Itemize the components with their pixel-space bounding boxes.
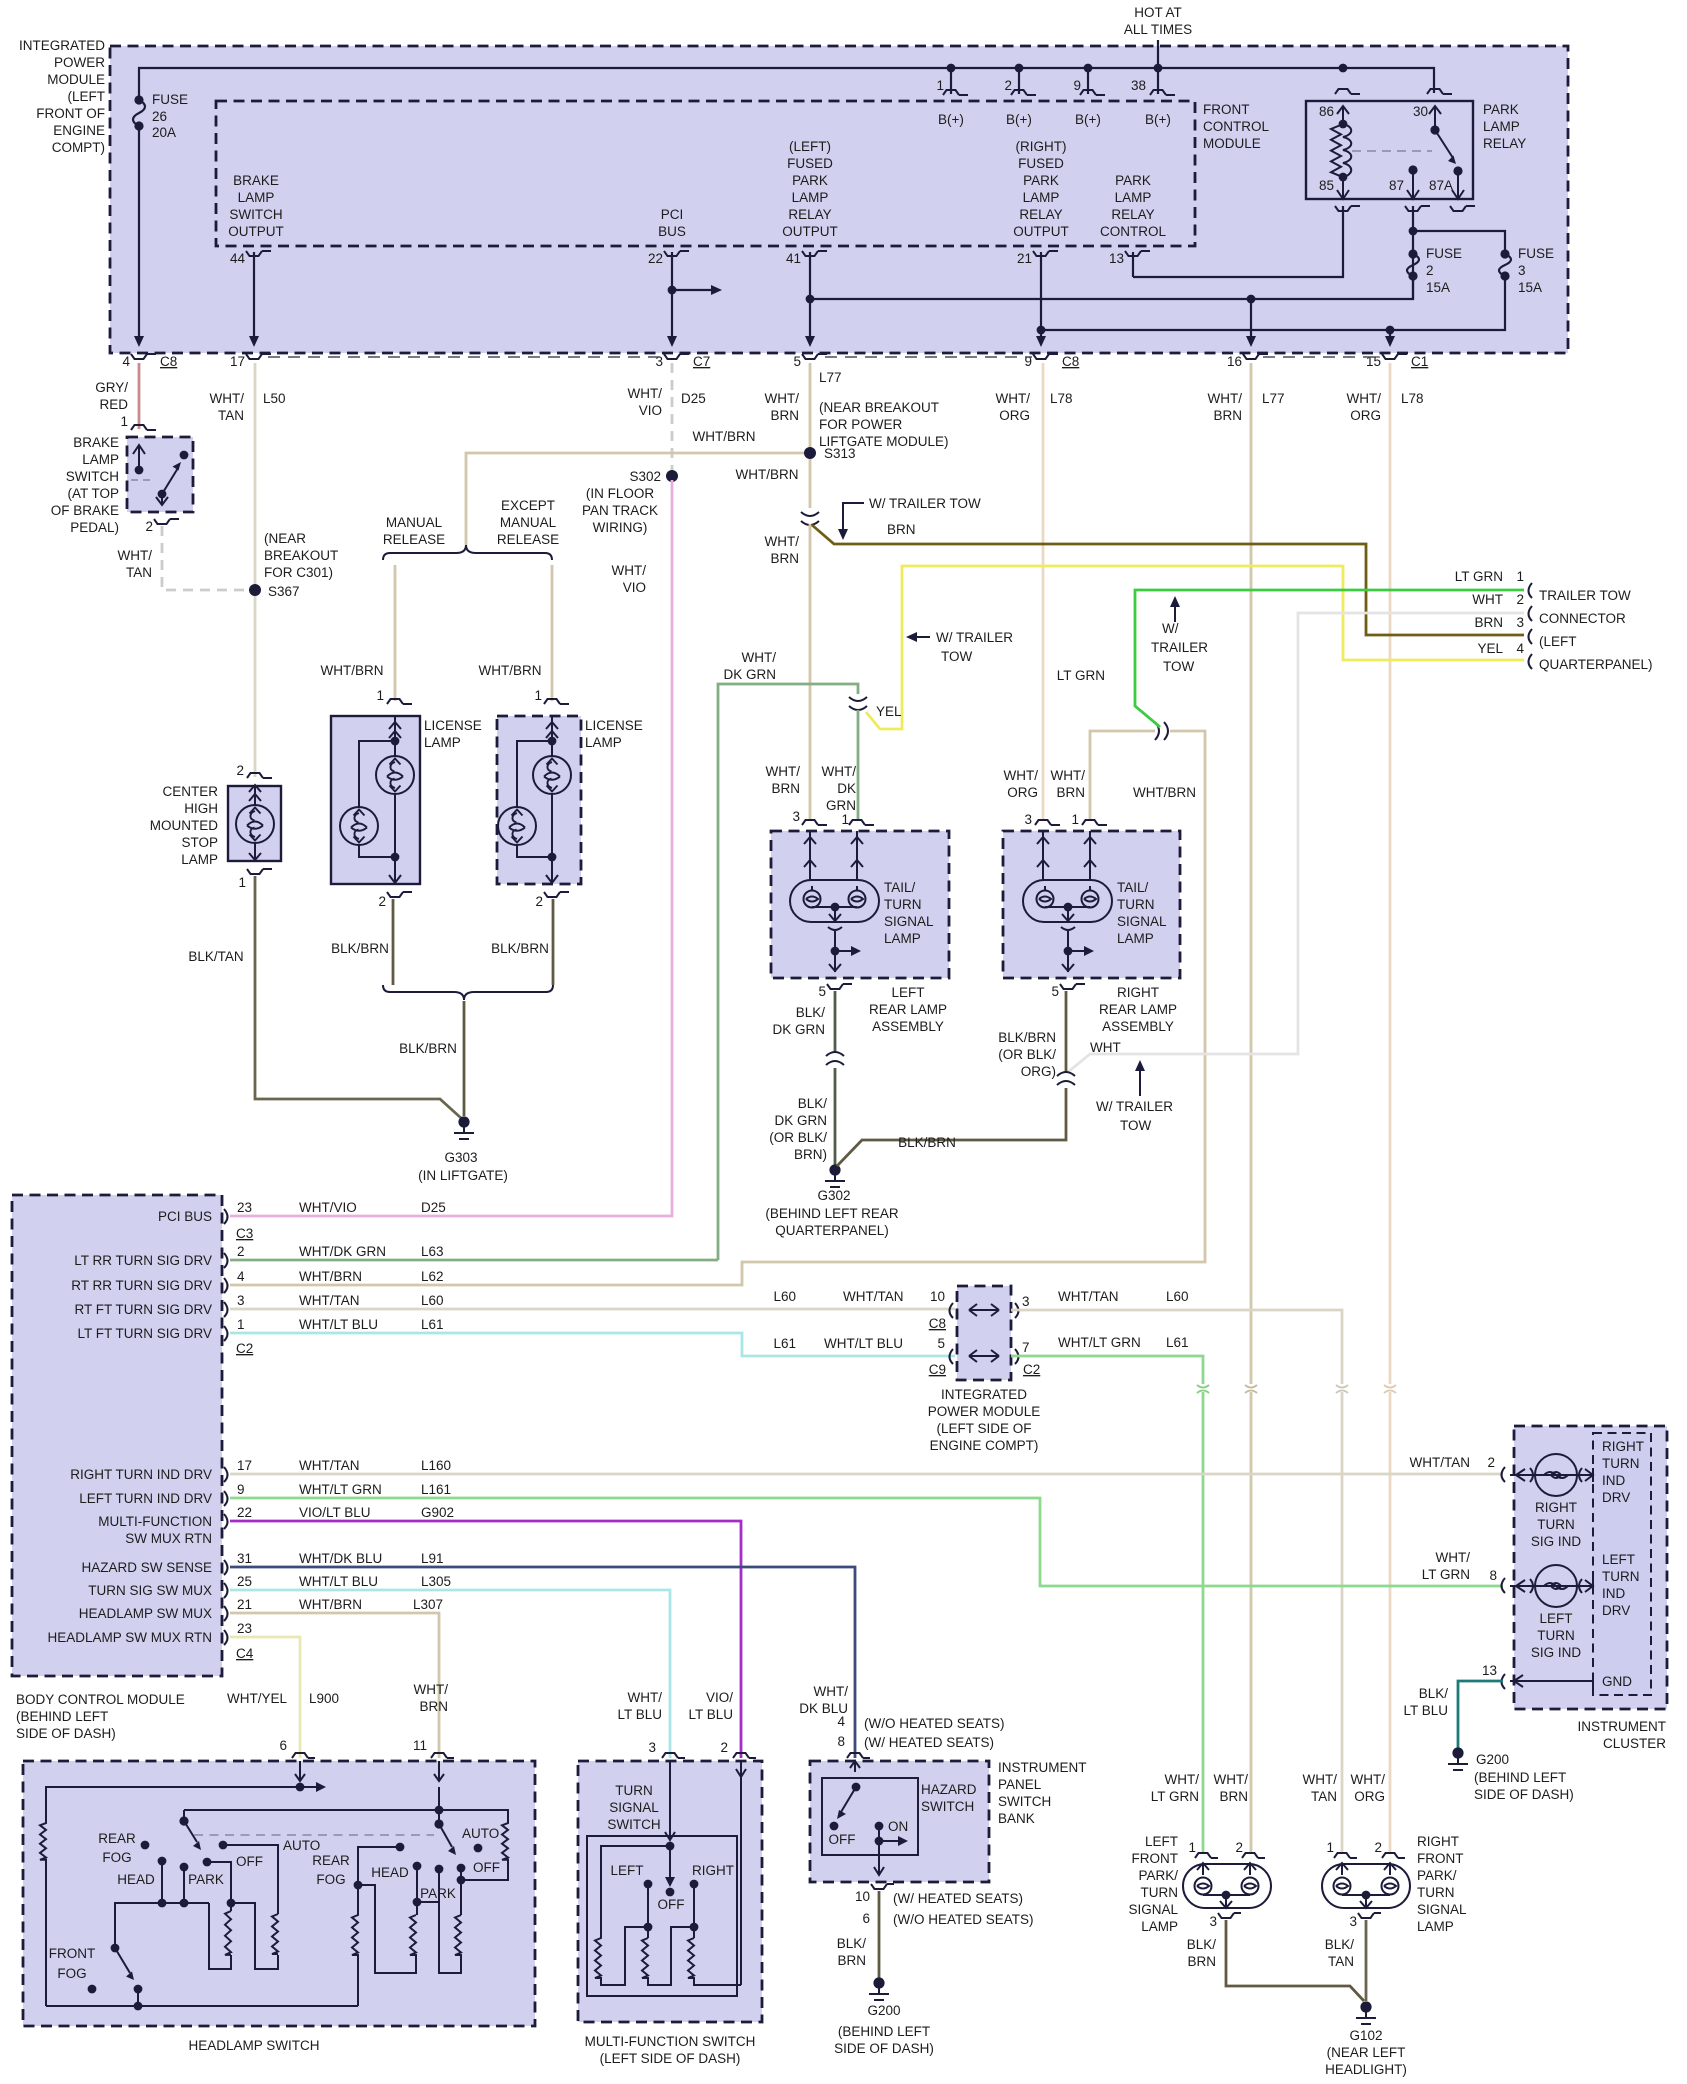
license lamp 2 box dashed: [497, 716, 581, 884]
svg-text:G303: G303: [444, 1150, 477, 1165]
svg-text:BLK/TAN: BLK/TAN: [188, 949, 243, 964]
wire L77 pin16 wht/brn: [1250, 363, 1253, 1854]
hls top rail and resistor R1: [40, 1787, 300, 2006]
svg-text:TAN: TAN: [1328, 1954, 1354, 1969]
hls bottom rail: [46, 2005, 358, 2007]
svg-text:WHT/: WHT/: [628, 386, 663, 401]
inline connector green/yel: [849, 697, 867, 710]
svg-text:BLK/: BLK/: [1325, 1937, 1355, 1952]
wire L61 wht/lt blu bcm pin1 to ipm c9: [230, 1333, 955, 1356]
splice S313: [804, 447, 816, 459]
bcm pin 3: [224, 1302, 228, 1317]
svg-text:WHT/: WHT/: [996, 391, 1031, 406]
svg-text:87A: 87A: [1429, 178, 1453, 193]
svg-text:(NEAR BREAKOUT: (NEAR BREAKOUT: [819, 400, 939, 415]
svg-text:SWITCH: SWITCH: [66, 469, 119, 484]
svg-text:LAMP: LAMP: [884, 931, 921, 946]
svg-text:TAN: TAN: [1311, 1789, 1337, 1804]
svg-text:ASSEMBLY: ASSEMBLY: [872, 1019, 944, 1034]
svg-text:86: 86: [1319, 104, 1334, 119]
mfs right contact: [690, 1880, 699, 1889]
mfs pin2 wire: [736, 1761, 746, 1985]
cluster pin2 cup: [1502, 1467, 1506, 1482]
svg-text:9: 9: [1073, 78, 1081, 93]
right front lamp pin cups: [1334, 1853, 1357, 1858]
bcm pin 31: [224, 1560, 228, 1575]
svg-text:LT FT TURN SIG DRV: LT FT TURN SIG DRV: [77, 1326, 212, 1341]
svg-text:85: 85: [1319, 178, 1334, 193]
inline connector loop/ltgrn: [1155, 722, 1168, 740]
svg-text:2: 2: [1374, 1840, 1382, 1855]
svg-text:3: 3: [1518, 263, 1526, 278]
wire wht/brn loop to bcm pin4: [230, 731, 1205, 1285]
svg-text:13: 13: [1109, 251, 1124, 266]
svg-text:9: 9: [237, 1482, 245, 1497]
pin 9 B+: [1087, 68, 1089, 94]
license lamp2 internals: [546, 716, 558, 756]
wire lt grn trailer tow: [1135, 590, 1524, 727]
svg-text:(W/ HEATED SEATS): (W/ HEATED SEATS): [864, 1735, 994, 1750]
svg-text:1: 1: [936, 78, 944, 93]
inline connector on L78: [1384, 1385, 1396, 1393]
inline connector on L61: [1197, 1385, 1209, 1393]
svg-text:WHT/: WHT/: [118, 548, 153, 563]
svg-text:G102: G102: [1349, 2028, 1382, 2043]
svg-text:FOG: FOG: [316, 1872, 345, 1887]
fuse 2: [1408, 249, 1417, 258]
svg-text:OFF: OFF: [829, 1832, 856, 1847]
svg-text:LAMP: LAMP: [1115, 190, 1152, 205]
svg-text:SWITCH: SWITCH: [998, 1794, 1051, 1809]
svg-text:WHT/: WHT/: [628, 1690, 663, 1705]
svg-text:(W/O HEATED SEATS): (W/O HEATED SEATS): [893, 1912, 1034, 1927]
svg-text:3: 3: [655, 354, 663, 369]
svg-text:LAMP: LAMP: [1417, 1919, 1454, 1934]
svg-text:(NEAR: (NEAR: [264, 531, 306, 546]
svg-text:2: 2: [1516, 592, 1524, 607]
svg-text:TURN: TURN: [1141, 1885, 1179, 1900]
svg-text:BRAKE: BRAKE: [233, 173, 279, 188]
left front lamp pin3 cup: [1218, 1913, 1241, 1918]
svg-text:FOG: FOG: [102, 1850, 131, 1865]
svg-text:(W/O HEATED SEATS): (W/O HEATED SEATS): [864, 1716, 1005, 1731]
svg-text:B(+): B(+): [1145, 112, 1171, 127]
svg-text:11: 11: [413, 1738, 427, 1753]
svg-text:(OR BLK/: (OR BLK/: [998, 1047, 1056, 1062]
svg-text:DRV: DRV: [1602, 1603, 1630, 1618]
wire L61 wht/lt grn ipm to front lamp: [1011, 1356, 1203, 1854]
svg-text:BLK/BRN: BLK/BRN: [331, 941, 389, 956]
chmsl pin2 cup: [247, 773, 272, 778]
ipm pin 5: [802, 354, 827, 359]
svg-text:FUSE: FUSE: [1426, 246, 1462, 261]
wire L77 pin5 wht/brn upper: [809, 363, 812, 508]
svg-text:BLK/: BLK/: [798, 1096, 828, 1111]
svg-text:C8: C8: [160, 354, 177, 369]
svg-text:BLK/BRN: BLK/BRN: [399, 1041, 457, 1056]
svg-text:FUSED: FUSED: [787, 156, 833, 171]
mfs inner box: [587, 1836, 737, 1996]
svg-text:BRN: BRN: [419, 1699, 448, 1714]
svg-text:IND: IND: [1602, 1473, 1626, 1488]
relay gang dashed: [1352, 150, 1432, 152]
svg-text:TAN: TAN: [218, 408, 244, 423]
svg-text:2: 2: [720, 1740, 728, 1755]
svg-text:3: 3: [237, 1293, 245, 1308]
svg-text:VIO/: VIO/: [706, 1690, 733, 1705]
svg-text:C8: C8: [929, 1316, 946, 1331]
svg-text:10: 10: [855, 1889, 870, 1904]
svg-text:LAMP: LAMP: [585, 735, 622, 750]
wire blk/brn left front to G102: [1226, 1920, 1364, 2001]
svg-text:RIGHT: RIGHT: [1535, 1500, 1577, 1515]
svg-text:WHT/: WHT/: [210, 391, 245, 406]
hls blade1: [184, 1810, 197, 1842]
wire wht/brn to license lamp 1: [394, 565, 397, 701]
svg-text:PARK: PARK: [792, 173, 828, 188]
svg-text:WHT/LT BLU: WHT/LT BLU: [824, 1336, 903, 1351]
svg-text:17: 17: [237, 1458, 252, 1473]
svg-text:GND: GND: [1602, 1674, 1632, 1689]
svg-text:WHT/YEL: WHT/YEL: [227, 1691, 287, 1706]
svg-text:WHT/: WHT/: [1165, 1772, 1200, 1787]
mfs resistor B: [642, 1927, 694, 1985]
inline connector on L77 at S313 branch: [801, 512, 819, 525]
svg-text:L307: L307: [413, 1597, 443, 1612]
chmsl pin1 cup: [247, 869, 272, 874]
svg-text:WHT/: WHT/: [1051, 768, 1086, 783]
license lamp2 pin1 cup: [544, 699, 569, 704]
pin 16 wire: [1250, 299, 1252, 338]
svg-text:BANK: BANK: [998, 1811, 1035, 1826]
svg-text:W/ TRAILER: W/ TRAILER: [936, 630, 1013, 645]
svg-text:MODULE: MODULE: [47, 72, 105, 87]
svg-text:S302: S302: [629, 469, 661, 484]
pointer w/ trailer tow brn: [843, 503, 864, 531]
svg-text:REAR: REAR: [312, 1853, 350, 1868]
svg-text:SIDE OF DASH): SIDE OF DASH): [1474, 1787, 1574, 1802]
svg-text:(IN LIFTGATE): (IN LIFTGATE): [418, 1168, 508, 1183]
svg-text:RIGHT: RIGHT: [1117, 985, 1159, 1000]
svg-text:2: 2: [237, 1244, 245, 1259]
svg-text:(BEHIND LEFT: (BEHIND LEFT: [1474, 1770, 1566, 1785]
svg-text:GRY/: GRY/: [95, 380, 128, 395]
svg-text:TURN: TURN: [884, 897, 922, 912]
svg-text:WHT/LT BLU: WHT/LT BLU: [299, 1574, 378, 1589]
svg-text:LT GRN: LT GRN: [1455, 569, 1503, 584]
wire L307 wht/brn: [230, 1613, 439, 1758]
wire blk/lt blu to G200: [1458, 1681, 1503, 1749]
wire blk/dk grn from pin5: [834, 991, 837, 1052]
svg-text:C8: C8: [1062, 354, 1079, 369]
wire wht/tan dashed to S367: [162, 526, 250, 590]
svg-text:CONTROL: CONTROL: [1203, 119, 1269, 134]
svg-text:TURN SIG SW MUX: TURN SIG SW MUX: [88, 1583, 212, 1598]
svg-text:LAMP: LAMP: [82, 452, 119, 467]
svg-text:PARK: PARK: [188, 1872, 224, 1887]
bcm pin 9: [224, 1491, 228, 1506]
svg-text:REAR LAMP: REAR LAMP: [1099, 1002, 1177, 1017]
svg-text:LT BLU: LT BLU: [688, 1707, 733, 1722]
svg-text:ALL TIMES: ALL TIMES: [1124, 22, 1192, 37]
wire blk/brn to G303: [463, 1001, 466, 1116]
ipm pin 17: [246, 354, 271, 359]
svg-text:RELAY: RELAY: [1019, 207, 1062, 222]
mfs pin3 wire into switch: [665, 1761, 675, 1840]
svg-text:FUSE: FUSE: [152, 92, 188, 107]
svg-text:L61: L61: [773, 1336, 796, 1351]
svg-text:OUTPUT: OUTPUT: [228, 224, 284, 239]
svg-text:23: 23: [237, 1200, 252, 1215]
svg-text:ORG): ORG): [1021, 1064, 1056, 1079]
svg-text:2: 2: [236, 763, 244, 778]
svg-text:1: 1: [1326, 1840, 1334, 1855]
wire L50 wht/tan: [254, 363, 257, 777]
svg-text:INSTRUMENT: INSTRUMENT: [1578, 1719, 1667, 1734]
svg-text:G200: G200: [867, 2003, 900, 2018]
svg-text:WHT/: WHT/: [1004, 768, 1039, 783]
bcm pin 25: [224, 1583, 228, 1598]
svg-text:AUTO: AUTO: [462, 1826, 499, 1841]
svg-text:1: 1: [1516, 569, 1524, 584]
svg-text:POWER MODULE: POWER MODULE: [928, 1404, 1041, 1419]
pointer w/ trailer tow ltgrn: [1174, 604, 1176, 622]
ground G302: [829, 1164, 840, 1175]
ipm pin 9 C8: [1033, 354, 1058, 359]
svg-text:PARK: PARK: [1023, 173, 1059, 188]
svg-text:PEDAL): PEDAL): [70, 520, 119, 535]
svg-text:BRN: BRN: [887, 522, 916, 537]
svg-text:FOG: FOG: [57, 1966, 86, 1981]
svg-text:PARK: PARK: [1115, 173, 1151, 188]
svg-text:BLK/BRN: BLK/BRN: [491, 941, 549, 956]
svg-text:WHT/BRN: WHT/BRN: [693, 429, 756, 444]
svg-text:1: 1: [238, 875, 246, 890]
svg-text:WHT/TAN: WHT/TAN: [1058, 1289, 1119, 1304]
svg-text:15: 15: [1366, 354, 1381, 369]
svg-text:WHT/: WHT/: [814, 1684, 849, 1699]
mfs switch blade: [669, 1846, 671, 1879]
svg-text:BRN: BRN: [1213, 408, 1242, 423]
svg-text:WHT/: WHT/: [1436, 1550, 1471, 1565]
svg-text:BRN: BRN: [1474, 615, 1503, 630]
brake lamp switch box: [127, 437, 193, 512]
svg-text:L60: L60: [1166, 1289, 1189, 1304]
svg-text:EXCEPT: EXCEPT: [501, 498, 555, 513]
svg-text:21: 21: [237, 1597, 252, 1612]
svg-text:5: 5: [1051, 984, 1059, 999]
svg-text:TURN: TURN: [615, 1783, 653, 1798]
bcm pin 1 C2: [224, 1326, 228, 1341]
svg-text:L161: L161: [421, 1482, 451, 1497]
bcm pin 23 C3: [224, 1209, 228, 1224]
wire blk/dk grn to G302: [834, 1068, 837, 1166]
rear fog left contact: [141, 1841, 150, 1850]
svg-text:WHT/BRN: WHT/BRN: [736, 467, 799, 482]
svg-text:RIGHT: RIGHT: [1417, 1834, 1459, 1849]
svg-text:BLK/: BLK/: [1187, 1937, 1217, 1952]
hazard pin10 cup: [871, 1884, 894, 1889]
hls right contacts: [413, 1862, 422, 1871]
ground G102: [1360, 2001, 1371, 2012]
svg-text:7: 7: [1022, 1340, 1030, 1355]
right tail pin1 cup: [1082, 820, 1107, 825]
svg-text:L77: L77: [819, 370, 842, 385]
svg-text:TAIL/: TAIL/: [884, 880, 916, 895]
svg-text:SWITCH: SWITCH: [607, 1817, 660, 1832]
svg-text:OFF: OFF: [236, 1854, 263, 1869]
svg-text:C7: C7: [693, 354, 710, 369]
svg-text:L60: L60: [421, 1293, 444, 1308]
right tail pin3 cup: [1035, 820, 1060, 825]
svg-text:B(+): B(+): [1075, 112, 1101, 127]
svg-text:HEADLIGHT): HEADLIGHT): [1325, 2062, 1407, 2077]
svg-text:WHT/TAN: WHT/TAN: [299, 1293, 360, 1308]
svg-text:LICENSE: LICENSE: [424, 718, 482, 733]
wire yel trailer tow: [866, 566, 1524, 729]
svg-text:BLK/: BLK/: [837, 1936, 867, 1951]
pin 38 B+: [1157, 68, 1159, 94]
relay pin 87: [1408, 165, 1417, 174]
svg-text:SIGNAL: SIGNAL: [609, 1800, 659, 1815]
svg-text:2: 2: [1004, 78, 1012, 93]
svg-text:2: 2: [145, 519, 153, 534]
svg-text:WHT/: WHT/: [765, 534, 800, 549]
svg-text:BLK/BRN: BLK/BRN: [898, 1135, 956, 1150]
bcm pin 4: [224, 1278, 228, 1293]
svg-text:DRV: DRV: [1602, 1490, 1630, 1505]
svg-text:LAMP: LAMP: [1117, 931, 1154, 946]
svg-text:L61: L61: [421, 1317, 444, 1332]
svg-text:2: 2: [1487, 1455, 1495, 1470]
svg-text:G902: G902: [421, 1505, 454, 1520]
svg-text:BRN: BRN: [1219, 1789, 1248, 1804]
svg-text:PAN TRACK: PAN TRACK: [582, 503, 658, 518]
svg-text:TURN: TURN: [1537, 1517, 1575, 1532]
svg-text:SIG IND: SIG IND: [1531, 1645, 1582, 1660]
svg-text:26: 26: [152, 109, 167, 124]
mfs pin cups: [662, 1753, 685, 1758]
ground G200 left: [873, 1977, 884, 1988]
svg-text:WHT/: WHT/: [1351, 1772, 1386, 1787]
svg-text:FRONT OF: FRONT OF: [36, 106, 105, 121]
svg-text:RELAY: RELAY: [1483, 136, 1526, 151]
hazard on contact: [875, 1822, 884, 1831]
wire blk/brn license1: [392, 899, 395, 985]
wire wht/dk grn to tail pin1: [857, 710, 860, 821]
svg-text:2: 2: [378, 894, 386, 909]
svg-text:BRAKE: BRAKE: [73, 435, 119, 450]
svg-text:L50: L50: [263, 391, 286, 406]
hls front fog switch: [111, 1944, 120, 1953]
brake lamp switch pin2 cup: [154, 519, 179, 524]
rear fog right wiring: [396, 1843, 405, 1852]
svg-text:1: 1: [376, 688, 384, 703]
svg-text:OUTPUT: OUTPUT: [782, 224, 838, 239]
svg-text:BUS: BUS: [658, 224, 686, 239]
svg-text:WHT/BRN: WHT/BRN: [299, 1269, 362, 1284]
tail lamp left pin3 cup: [802, 820, 827, 825]
svg-text:SIGNAL: SIGNAL: [1128, 1902, 1178, 1917]
svg-text:1: 1: [534, 688, 542, 703]
svg-text:6: 6: [862, 1911, 870, 1926]
svg-text:5: 5: [818, 984, 826, 999]
svg-text:SWITCH: SWITCH: [921, 1799, 974, 1814]
svg-text:LT GRN: LT GRN: [1151, 1789, 1199, 1804]
svg-text:IND: IND: [1602, 1586, 1626, 1601]
license lamp1 pin1 cup: [387, 699, 412, 704]
wire blk/brn right pin5: [1065, 991, 1068, 1072]
svg-text:WHT/TAN: WHT/TAN: [1410, 1455, 1471, 1470]
svg-text:(W/ HEATED SEATS): (W/ HEATED SEATS): [893, 1891, 1023, 1906]
svg-text:CONNECTOR: CONNECTOR: [1539, 611, 1626, 626]
left front lamp pin cups: [1195, 1853, 1218, 1858]
svg-text:(IN FLOOR: (IN FLOOR: [586, 486, 655, 501]
svg-text:WHT: WHT: [1472, 592, 1503, 607]
svg-text:(BEHIND LEFT: (BEHIND LEFT: [16, 1709, 108, 1724]
svg-text:ORG: ORG: [1354, 1789, 1385, 1804]
right tail pin5 cup: [1060, 984, 1085, 989]
relay pin 87A: [1453, 166, 1462, 175]
svg-text:G302: G302: [817, 1188, 850, 1203]
svg-text:HEADLAMP SW MUX RTN: HEADLAMP SW MUX RTN: [47, 1630, 212, 1645]
svg-text:WHT/: WHT/: [1214, 1772, 1249, 1787]
hazard wire in: [850, 1761, 860, 1772]
svg-text:BRN: BRN: [837, 1953, 866, 1968]
wire wht/dk grn loop from bcm pin2: [718, 684, 858, 1260]
svg-text:TAN: TAN: [126, 565, 152, 580]
svg-text:5: 5: [937, 1336, 945, 1351]
wire hot feed vertical: [1157, 40, 1159, 67]
svg-text:WHT/BRN: WHT/BRN: [321, 663, 384, 678]
svg-text:ASSEMBLY: ASSEMBLY: [1102, 1019, 1174, 1034]
pin 22 wire: [671, 252, 673, 338]
svg-text:1: 1: [1188, 1840, 1196, 1855]
svg-text:L60: L60: [773, 1289, 796, 1304]
head2 park2 wiring with resistor R5: [417, 1866, 461, 1973]
svg-text:STOP: STOP: [181, 835, 218, 850]
fuse 26: [134, 95, 143, 104]
svg-text:16: 16: [1227, 354, 1242, 369]
svg-text:ORG: ORG: [999, 408, 1030, 423]
svg-text:INTEGRATED: INTEGRATED: [19, 38, 105, 53]
svg-text:BRN: BRN: [770, 408, 799, 423]
svg-text:MULTI-FUNCTION SWITCH: MULTI-FUNCTION SWITCH: [585, 2034, 756, 2049]
svg-text:MOUNTED: MOUNTED: [150, 818, 218, 833]
svg-text:WHT/TAN: WHT/TAN: [843, 1289, 904, 1304]
wire L78 pin15 wht/org: [1389, 363, 1392, 1854]
svg-text:OUTPUT: OUTPUT: [1013, 224, 1069, 239]
svg-text:1: 1: [120, 414, 128, 429]
svg-text:RELAY: RELAY: [788, 207, 831, 222]
svg-text:TURN: TURN: [1537, 1628, 1575, 1643]
bcm pin 23 C4: [224, 1630, 228, 1645]
wire wht/vio below S302: [230, 480, 672, 1216]
svg-text:BRN: BRN: [771, 781, 800, 796]
hls pin6 wire: [295, 1761, 305, 1781]
wire blk/tan right front to G102: [1365, 1920, 1368, 2001]
svg-text:FRONT: FRONT: [1132, 1851, 1179, 1866]
brake lamp switch internals: [133, 445, 145, 470]
svg-text:WHT/LT GRN: WHT/LT GRN: [1058, 1335, 1141, 1350]
svg-text:D25: D25: [681, 391, 706, 406]
svg-text:TURN: TURN: [1417, 1885, 1455, 1900]
svg-text:W/ TRAILER TOW: W/ TRAILER TOW: [869, 496, 981, 511]
svg-text:17: 17: [230, 354, 245, 369]
svg-text:LT BLU: LT BLU: [617, 1707, 662, 1722]
svg-text:CLUSTER: CLUSTER: [1603, 1736, 1666, 1751]
hls pin11 wire: [434, 1761, 444, 1824]
